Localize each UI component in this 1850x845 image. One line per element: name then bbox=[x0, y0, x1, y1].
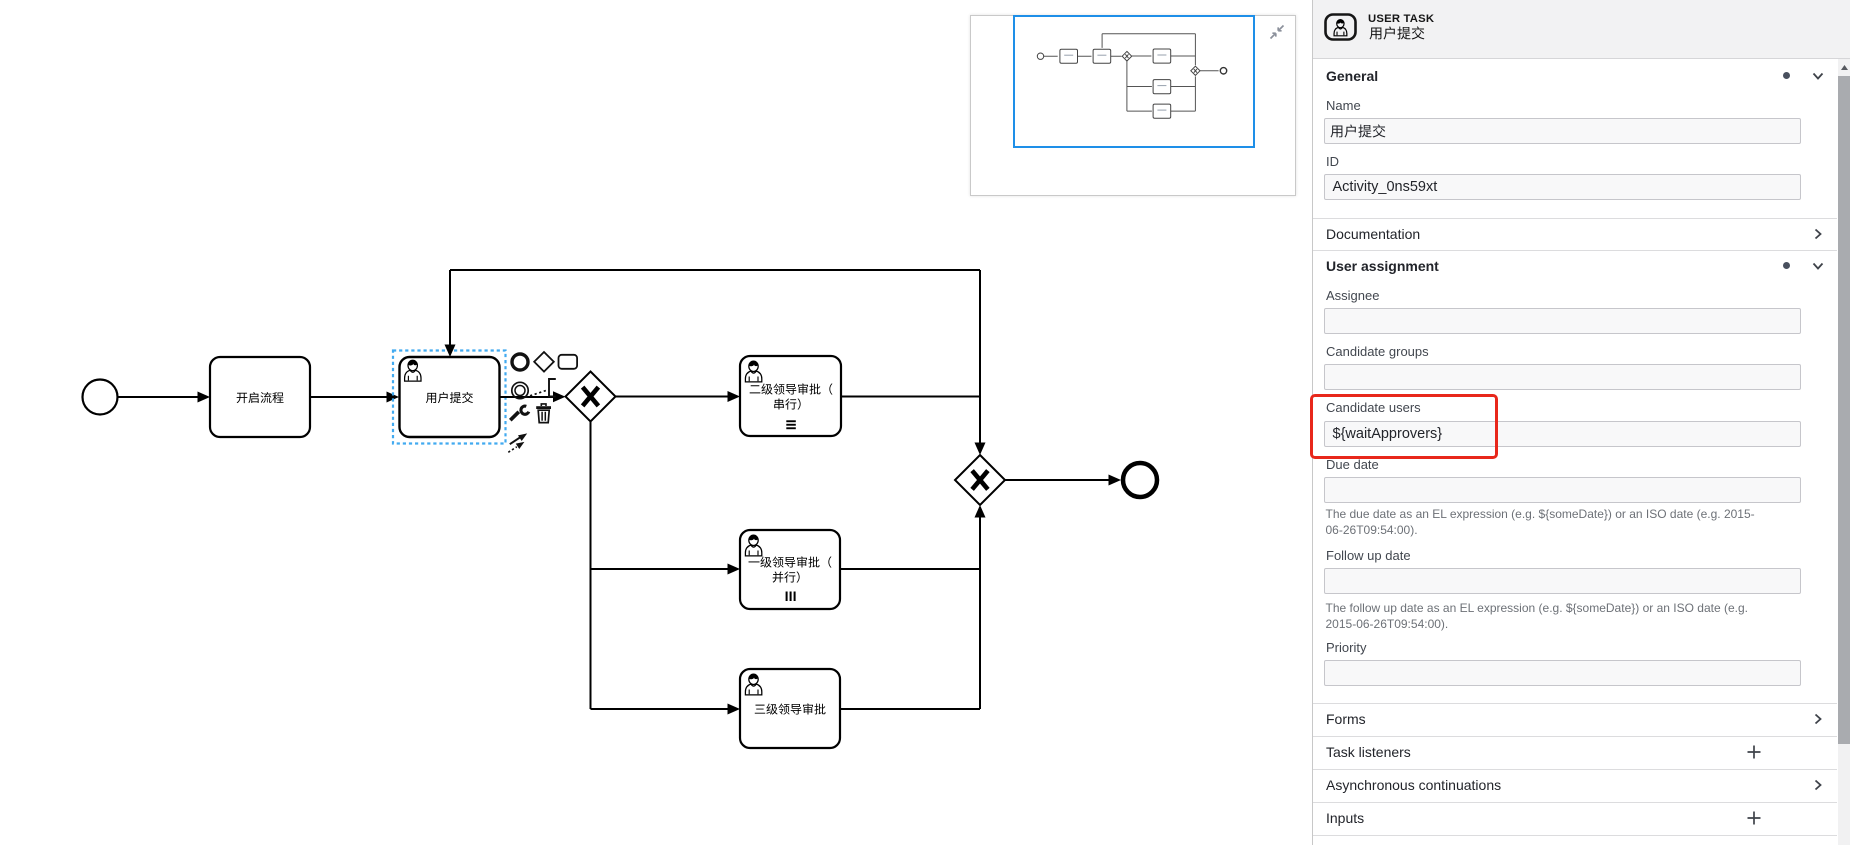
mini task 用户提交 bbox=[1093, 49, 1111, 63]
header user task badge icon bbox=[1324, 13, 1358, 43]
section Asynchronous continuations bbox=[1313, 769, 1837, 770]
task 开启流程 bbox=[210, 357, 310, 437]
mini start event bbox=[1037, 53, 1043, 59]
mini gateway 1 bbox=[1122, 51, 1132, 61]
Candidate groups field bbox=[1326, 344, 1429, 359]
wire gateway 1 to task 一级领导审批 bbox=[591, 564, 741, 575]
wire gateway 2 to end event bbox=[1005, 475, 1121, 486]
wire task 开启流程 to task 用户提交 bbox=[310, 392, 399, 403]
Priority field bbox=[1326, 640, 1366, 655]
user task 用户提交 (selected) bbox=[400, 357, 500, 437]
minimap container bbox=[970, 15, 1296, 196]
wire loopback into top of 用户提交 bbox=[445, 270, 456, 357]
selection box around 用户提交 bbox=[393, 351, 506, 444]
exclusive gateway 2 bbox=[955, 455, 1005, 505]
Due date field bbox=[1326, 457, 1379, 472]
Assignee field bbox=[1326, 288, 1379, 303]
mini task 开启流程 bbox=[1060, 49, 1078, 63]
Candidate users field bbox=[1326, 400, 1421, 415]
task 一级领导审批（并行） bbox=[740, 530, 840, 609]
section Task listeners bbox=[1313, 736, 1837, 737]
mini wires bbox=[1044, 34, 1219, 111]
header element name 用户提交 bbox=[1368, 23, 1426, 43]
wire 二级领导审批 to gateway 2 (via x980) bbox=[841, 396, 980, 398]
mini task 一级 bbox=[1153, 80, 1171, 94]
mini gateway 2 bbox=[1191, 66, 1200, 75]
panel scrollbar bbox=[1838, 59, 1850, 845]
ID field bbox=[1326, 154, 1339, 169]
task 二级领导审批（串行） bbox=[740, 356, 841, 436]
wire gateway 1 to task 三级领导审批 bbox=[591, 704, 741, 715]
candidate users red highlight bbox=[1310, 394, 1498, 459]
task 三级领导审批 bbox=[740, 669, 840, 748]
context pad: connect arrows icon bbox=[508, 431, 529, 453]
wire gateway 1 to task 二级领导审批 bbox=[616, 391, 741, 402]
section User assignment bbox=[1313, 250, 1837, 251]
context pad: append intermediate event icon bbox=[512, 382, 528, 398]
minimap collapse icon bbox=[1269, 24, 1285, 40]
panel header bbox=[1313, 0, 1850, 59]
end event bbox=[1123, 463, 1157, 497]
Name field bbox=[1326, 98, 1361, 113]
start event bbox=[83, 380, 118, 415]
exclusive gateway 1 bbox=[566, 372, 616, 422]
section General bbox=[1326, 68, 1378, 84]
wire loopback horizontal segment bbox=[450, 269, 980, 271]
Follow up date field bbox=[1326, 548, 1411, 563]
context pad: append task icon bbox=[559, 355, 578, 369]
context pad: append end event icon bbox=[512, 354, 528, 370]
context pad: append text annotation icon bbox=[526, 379, 556, 397]
mini task 三级 bbox=[1153, 104, 1171, 118]
context pad: trash icon bbox=[536, 404, 551, 423]
section Documentation bbox=[1313, 218, 1837, 219]
mini end event bbox=[1220, 68, 1226, 74]
wire loopback right vertical into gateway 2 bbox=[975, 270, 986, 455]
mini task 二级 bbox=[1153, 49, 1171, 63]
wire 三级领导审批 to gateway 2 (via x980) bbox=[840, 708, 980, 710]
minimap viewport bbox=[1013, 15, 1255, 148]
context pad: append gateway icon bbox=[534, 352, 554, 372]
wire 用户提交 to gateway 1 bbox=[500, 391, 566, 402]
properties panel bbox=[1312, 0, 1850, 845]
wire gateway 1 down stem bbox=[590, 422, 592, 710]
section Forms bbox=[1313, 703, 1837, 704]
context pad: wrench icon bbox=[510, 406, 529, 420]
wire 一级领导审批 to gateway 2 (via x980) bbox=[840, 568, 980, 570]
section Inputs bbox=[1313, 802, 1837, 803]
wire bottom vertical into gateway 2 bbox=[975, 505, 986, 709]
wire start to task 开启流程 bbox=[118, 392, 210, 403]
